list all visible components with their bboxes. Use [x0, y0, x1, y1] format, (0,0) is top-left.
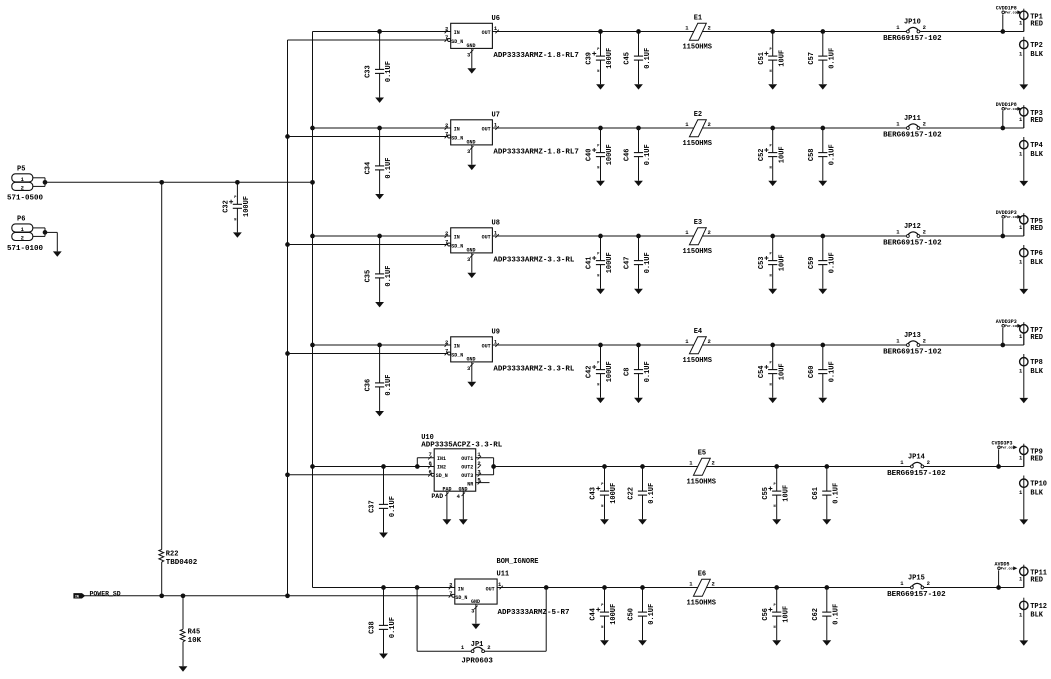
capacitor C32 — [223, 182, 252, 238]
svg-text:C46: C46 — [624, 148, 632, 161]
svg-text:JP15: JP15 — [908, 575, 925, 583]
capacitor C52 — [758, 128, 787, 186]
svg-text:OUT: OUT — [482, 344, 491, 350]
svg-text:E1: E1 — [694, 14, 702, 22]
test point TP1 (RED) — [1019, 9, 1043, 32]
jumper JP11 — [883, 115, 942, 139]
svg-text:0.1UF: 0.1UF — [828, 144, 836, 165]
capacitor C43 — [590, 467, 619, 525]
jumper JP12 — [883, 223, 942, 247]
wire POWER_SD bus (vertical) — [287, 40, 289, 596]
svg-text:0.1UF: 0.1UF — [644, 252, 652, 273]
op-amp regulator U6 ADP3333ARMZ-1.8-RL7 — [445, 15, 579, 74]
test point TP2 (BLK) — [1019, 37, 1044, 90]
power flag net AVDD3P3 — [996, 319, 1022, 345]
op-amp regulator U10 ADP3335ACPZ-3.3-RL — [421, 434, 503, 525]
svg-text:2: 2 — [708, 338, 711, 345]
svg-text:0.1UF: 0.1UF — [385, 266, 393, 287]
svg-text:571-0500: 571-0500 — [7, 195, 44, 203]
ground — [383, 652, 385, 654]
svg-text:N: N — [770, 70, 772, 74]
svg-text:BERG69157-102: BERG69157-102 — [883, 239, 942, 247]
test point TP12 (BLK) — [1019, 598, 1047, 646]
svg-text:C35: C35 — [365, 270, 373, 283]
power flag net CVDD1P8 — [996, 5, 1022, 31]
ground — [1023, 180, 1025, 182]
op-amp regulator U9 ADP3333ARMZ-3.3-RL — [445, 328, 575, 387]
junction nodes — [598, 234, 1005, 239]
ground — [1023, 639, 1025, 641]
wire JP1 bypass — [417, 588, 546, 652]
wire input to U8 — [313, 235, 451, 237]
svg-text:TP8: TP8 — [1030, 359, 1043, 367]
svg-text:N: N — [597, 275, 599, 279]
svg-text:ADP3333ARMZ-1.8-RL7: ADP3333ARMZ-1.8-RL7 — [493, 52, 579, 60]
svg-text:P6: P6 — [17, 216, 25, 224]
svg-text:E4: E4 — [694, 328, 702, 336]
jumper JP1 — [461, 641, 493, 666]
capacitor C33 — [365, 32, 394, 103]
svg-text:N: N — [597, 167, 599, 171]
svg-text:2: 2 — [923, 24, 926, 31]
svg-text:C47: C47 — [624, 256, 632, 269]
resistor R45 10K — [179, 596, 202, 672]
wire output net DVDD1P8 — [492, 117, 1023, 129]
ground — [471, 48, 473, 68]
ground — [471, 145, 473, 165]
svg-text:100UF: 100UF — [606, 144, 614, 165]
svg-text:P: P — [597, 48, 599, 52]
ground — [379, 96, 381, 98]
svg-text:0.1UF: 0.1UF — [389, 617, 397, 638]
test point TP3 (RED) — [1019, 105, 1043, 128]
svg-text:PAD: PAD — [431, 493, 443, 500]
resistor R22 TBD0402 — [159, 182, 198, 596]
jumper JP10 — [883, 19, 942, 43]
svg-text:115OHMS: 115OHMS — [686, 478, 715, 486]
svg-text:P: P — [770, 144, 772, 148]
wire shutdown SD_N to U8 — [288, 244, 448, 246]
capacitor C35 — [365, 236, 394, 307]
svg-text:ADP3333ARMZ-3.3-RL: ADP3333ARMZ-3.3-RL — [493, 256, 575, 264]
ground — [638, 180, 640, 182]
wire output net CVDD1P8 — [492, 20, 1023, 32]
svg-text:C22: C22 — [628, 487, 636, 500]
svg-text:RED: RED — [1030, 21, 1043, 29]
svg-text:100UF: 100UF — [243, 196, 251, 217]
svg-text:R45: R45 — [188, 629, 201, 637]
wire input to U11 — [313, 587, 455, 589]
svg-text:E3: E3 — [694, 219, 702, 227]
wire shutdown SD_N to U7 — [288, 136, 448, 138]
svg-text:BOM_IGNORE: BOM_IGNORE — [497, 558, 539, 566]
svg-text:10UF: 10UF — [778, 146, 786, 163]
svg-text:BLK: BLK — [1030, 51, 1043, 59]
wire shutdown SD_N to U9 — [288, 353, 448, 355]
ground — [600, 288, 602, 290]
wire input to U6 — [313, 31, 451, 33]
test point TP11 (RED) — [1019, 565, 1047, 588]
svg-text:100UF: 100UF — [606, 361, 614, 382]
svg-text:N: N — [597, 384, 599, 388]
svg-text:P: P — [774, 483, 776, 487]
svg-text:BLK: BLK — [1030, 368, 1043, 376]
svg-text:E6: E6 — [698, 570, 706, 578]
svg-text:2: 2 — [708, 121, 711, 128]
svg-text:C59: C59 — [808, 256, 816, 269]
svg-text:BLK: BLK — [1030, 151, 1043, 159]
svg-text:U7: U7 — [492, 111, 500, 119]
svg-text:IN: IN — [75, 594, 79, 598]
svg-text:C61: C61 — [812, 487, 820, 500]
svg-text:JPR0603: JPR0603 — [461, 658, 493, 666]
svg-text:DVDD3P3: DVDD3P3 — [996, 210, 1017, 216]
svg-text:0.1UF: 0.1UF — [385, 375, 393, 396]
ground — [604, 639, 606, 641]
capacitor C54 — [758, 345, 787, 403]
test point TP6 (BLK) — [1019, 245, 1044, 294]
ferrite bead E1 — [682, 14, 711, 51]
ground — [471, 362, 473, 382]
svg-text:TP4: TP4 — [1030, 142, 1043, 150]
svg-text:AVDD5: AVDD5 — [994, 561, 1009, 567]
wire output net DVDD3P3 — [492, 225, 1023, 237]
ground — [383, 531, 385, 533]
svg-text:10UF: 10UF — [782, 485, 790, 502]
svg-text:571-0100: 571-0100 — [7, 245, 44, 253]
svg-text:10UF: 10UF — [782, 606, 790, 623]
capacitor C37 — [369, 467, 398, 538]
ground — [379, 410, 381, 412]
svg-text:100UF: 100UF — [606, 252, 614, 273]
junction nodes — [602, 585, 1001, 590]
capacitor C40 — [586, 128, 615, 186]
svg-text:P: P — [770, 48, 772, 52]
capacitor C57 — [808, 32, 837, 90]
ground — [776, 518, 778, 520]
svg-text:CVDD1P8: CVDD1P8 — [996, 5, 1017, 11]
connector P6 571-0100 — [7, 216, 62, 257]
svg-text:IN: IN — [454, 127, 460, 133]
svg-text:BLK: BLK — [1030, 490, 1043, 498]
svg-text:2: 2 — [923, 229, 926, 236]
ground — [642, 639, 644, 641]
svg-text:2: 2 — [927, 459, 930, 466]
svg-text:JP12: JP12 — [904, 223, 921, 231]
svg-text:N: N — [770, 275, 772, 279]
capacitor C42 — [586, 345, 615, 403]
svg-text:C33: C33 — [365, 65, 373, 78]
svg-text:E5: E5 — [698, 449, 706, 457]
svg-text:ADP3333ARMZ-5-R7: ADP3333ARMZ-5-R7 — [498, 609, 570, 617]
svg-text:P: P — [597, 361, 599, 365]
svg-text:C60: C60 — [808, 365, 816, 378]
power flag net DVDD1P8 — [996, 102, 1022, 128]
svg-text:RED: RED — [1030, 577, 1043, 585]
test point TP8 (BLK) — [1019, 354, 1044, 403]
power flag net AVDD5 — [994, 561, 1017, 587]
wire shutdown SD_N to U10 — [288, 474, 432, 476]
svg-text:JP13: JP13 — [904, 332, 921, 340]
capacitor C36 — [365, 345, 394, 416]
ground — [604, 518, 606, 520]
svg-text:P: P — [770, 361, 772, 365]
svg-text:100UF: 100UF — [610, 604, 618, 625]
capacitor C34 — [365, 128, 394, 199]
svg-text:C57: C57 — [808, 52, 816, 65]
wire output net AVDD3P3 — [492, 334, 1023, 346]
capacitor C47 — [624, 236, 653, 294]
svg-text:N: N — [597, 70, 599, 74]
svg-text:0.1UF: 0.1UF — [648, 483, 656, 504]
ground — [822, 288, 824, 290]
ground — [56, 250, 58, 252]
svg-text:115OHMS: 115OHMS — [682, 357, 711, 365]
node input cap junction — [377, 343, 382, 348]
capacitor C46 — [624, 128, 653, 186]
svg-text:TBD0402: TBD0402 — [166, 559, 198, 567]
svg-text:C45: C45 — [624, 52, 632, 65]
op-amp regulator U8 ADP3333ARMZ-3.3-RL — [445, 219, 575, 278]
svg-text:2: 2 — [712, 581, 715, 588]
svg-text:E2: E2 — [694, 111, 702, 119]
ground — [1023, 518, 1025, 520]
power flag net DVDD3P3 — [996, 210, 1022, 236]
svg-text:C38: C38 — [369, 621, 377, 634]
svg-text:IN: IN — [454, 30, 460, 36]
ground — [826, 639, 828, 641]
svg-text:2: 2 — [487, 644, 490, 651]
svg-text:GND: GND — [466, 139, 475, 145]
svg-text:0.1UF: 0.1UF — [385, 61, 393, 82]
capacitor C51 — [758, 32, 787, 90]
ground — [772, 180, 774, 182]
capacitor C38 — [369, 588, 398, 659]
svg-text:TP10: TP10 — [1030, 481, 1047, 489]
svg-text:N: N — [770, 384, 772, 388]
ground — [600, 180, 602, 182]
svg-text:RED: RED — [1030, 225, 1043, 233]
svg-text:10UF: 10UF — [778, 254, 786, 271]
svg-text:JP14: JP14 — [908, 454, 925, 462]
svg-text:GND: GND — [466, 356, 475, 362]
capacitor C8 — [624, 345, 653, 403]
svg-text:P: P — [234, 196, 236, 200]
svg-text:C58: C58 — [808, 148, 816, 161]
capacitor C59 — [808, 236, 837, 294]
ground — [600, 397, 602, 399]
capacitor C39 — [586, 32, 615, 90]
wire OUT1/OUT2/OUT3 tie — [476, 457, 494, 459]
ferrite bead E2 — [682, 111, 711, 148]
capacitor C41 — [586, 236, 615, 294]
svg-text:0.1UF: 0.1UF — [648, 604, 656, 625]
svg-text:OUT: OUT — [482, 30, 491, 36]
jumper JP14 — [887, 454, 946, 478]
svg-text:P: P — [601, 604, 603, 608]
ground — [772, 397, 774, 399]
ground — [638, 397, 640, 399]
svg-text:IN2: IN2 — [437, 465, 446, 471]
svg-text:BLK: BLK — [1030, 259, 1043, 267]
svg-text:SD_N: SD_N — [451, 39, 463, 45]
svg-text:0.1UF: 0.1UF — [828, 252, 836, 273]
svg-text:2: 2 — [927, 580, 930, 587]
svg-text:10UF: 10UF — [778, 50, 786, 67]
ground — [471, 253, 473, 273]
svg-text:2: 2 — [708, 25, 711, 32]
svg-text:P: P — [597, 252, 599, 256]
wire output net CVDD3P3 — [494, 455, 1024, 467]
svg-text:TP6: TP6 — [1030, 250, 1043, 258]
svg-text:DVDD1P8: DVDD1P8 — [996, 102, 1017, 108]
ground — [379, 301, 381, 303]
ground GND pin — [462, 491, 464, 519]
svg-text:100UF: 100UF — [606, 48, 614, 69]
ground — [638, 83, 640, 85]
wire shutdown SD_N to U6 — [288, 39, 448, 41]
ground — [1023, 397, 1025, 399]
svg-text:POWER_SD: POWER_SD — [90, 590, 121, 597]
capacitor C58 — [808, 128, 837, 186]
wire input to U9 — [313, 344, 451, 346]
ferrite bead E5 — [686, 449, 715, 486]
svg-text:115OHMS: 115OHMS — [682, 140, 711, 148]
node input cap junction — [377, 234, 382, 239]
svg-text:BERG69157-102: BERG69157-102 — [883, 131, 942, 139]
svg-text:JP10: JP10 — [904, 19, 921, 27]
svg-text:SD_N: SD_N — [436, 473, 448, 479]
svg-text:RED: RED — [1030, 456, 1043, 464]
node input cap junction — [377, 126, 382, 131]
wire input to U10 — [313, 458, 435, 467]
capacitor C45 — [624, 32, 653, 90]
ground — [772, 83, 774, 85]
svg-text:BERG69157-102: BERG69157-102 — [887, 591, 946, 599]
svg-text:TP2: TP2 — [1030, 42, 1043, 50]
ferrite bead E3 — [682, 219, 711, 256]
svg-text:0.1UF: 0.1UF — [832, 604, 840, 625]
svg-text:0.1UF: 0.1UF — [385, 158, 393, 179]
svg-text:IN: IN — [458, 586, 464, 592]
svg-text:P: P — [597, 144, 599, 148]
port POWER_SD — [74, 590, 121, 598]
ground — [182, 665, 184, 667]
ground — [236, 231, 238, 233]
svg-text:IN1: IN1 — [437, 456, 446, 462]
svg-text:RED: RED — [1030, 117, 1043, 125]
svg-text:U8: U8 — [492, 219, 500, 227]
svg-text:C50: C50 — [628, 608, 636, 621]
svg-text:N: N — [774, 626, 776, 630]
capacitor C60 — [808, 345, 837, 403]
svg-text:AVDD3P3: AVDD3P3 — [996, 319, 1017, 325]
junction nodes — [598, 126, 1005, 131]
svg-text:115OHMS: 115OHMS — [682, 43, 711, 51]
svg-text:OUT3: OUT3 — [461, 473, 473, 479]
node junctions left — [43, 180, 315, 598]
junction nodes — [598, 343, 1005, 348]
junction nodes — [602, 464, 1001, 469]
svg-text:115OHMS: 115OHMS — [682, 248, 711, 256]
svg-text:ADP3335ACPZ-3.3-RL: ADP3335ACPZ-3.3-RL — [421, 442, 503, 450]
node junctions row 6 — [381, 585, 548, 590]
connector P5 571-0500 — [7, 166, 45, 203]
svg-text:N: N — [770, 167, 772, 171]
svg-text:CVDD3P3: CVDD3P3 — [991, 440, 1012, 446]
svg-text:U6: U6 — [492, 15, 500, 23]
svg-text:N: N — [774, 505, 776, 509]
svg-text:C36: C36 — [365, 379, 373, 392]
pin 5 NR stub wire — [476, 482, 490, 484]
node input cap junction — [377, 29, 382, 34]
svg-text:TP12: TP12 — [1030, 603, 1047, 611]
ground — [1023, 288, 1025, 290]
svg-text:JP1: JP1 — [471, 641, 484, 649]
svg-text:0.1UF: 0.1UF — [389, 496, 397, 517]
wire POWER_SD horizontal — [85, 595, 452, 597]
svg-text:GND: GND — [466, 43, 475, 49]
wire P6 to ground — [45, 231, 57, 233]
test point TP9 (RED) — [1019, 444, 1043, 467]
svg-text:0.1UF: 0.1UF — [644, 361, 652, 382]
ground — [822, 397, 824, 399]
svg-text:SD_N: SD_N — [451, 135, 463, 141]
ground — [822, 180, 824, 182]
svg-text:IN: IN — [454, 344, 460, 350]
test point TP5 (RED) — [1019, 213, 1043, 236]
jumper JP15 — [887, 575, 946, 599]
capacitor C50 — [628, 588, 657, 646]
ground — [776, 639, 778, 641]
svg-text:U10: U10 — [421, 434, 434, 442]
svg-text:2: 2 — [923, 121, 926, 128]
test point TP10 (BLK) — [1019, 476, 1047, 525]
svg-text:SD_N: SD_N — [451, 243, 463, 249]
svg-text:OUT: OUT — [486, 586, 495, 592]
svg-text:0.1UF: 0.1UF — [828, 48, 836, 69]
op-amp regulator U7 ADP3333ARMZ-1.8-RL7 — [445, 111, 579, 170]
capacitor C55 — [762, 467, 791, 525]
svg-text:P5: P5 — [17, 166, 25, 174]
capacitor C61 — [812, 467, 841, 525]
svg-text:2: 2 — [923, 338, 926, 345]
capacitor C53 — [758, 236, 787, 294]
svg-text:R22: R22 — [166, 551, 179, 559]
svg-text:OUT1: OUT1 — [461, 456, 473, 462]
wire input to U7 — [313, 127, 451, 129]
svg-text:N: N — [601, 626, 603, 630]
capacitor C56 — [762, 588, 791, 646]
svg-text:U9: U9 — [492, 328, 500, 336]
svg-text:2: 2 — [21, 235, 24, 242]
svg-text:N: N — [601, 505, 603, 509]
svg-text:100UF: 100UF — [610, 483, 618, 504]
ferrite bead E4 — [682, 328, 711, 365]
svg-text:2: 2 — [708, 229, 711, 236]
ground — [475, 604, 477, 624]
svg-text:0.1UF: 0.1UF — [832, 483, 840, 504]
ground — [822, 83, 824, 85]
svg-text:115OHMS: 115OHMS — [686, 599, 715, 607]
ground PAD pin — [446, 491, 448, 519]
ground — [772, 288, 774, 290]
svg-text:NR: NR — [467, 481, 473, 487]
svg-text:0.1UF: 0.1UF — [644, 48, 652, 69]
svg-text:U11: U11 — [497, 570, 510, 578]
svg-text:N: N — [234, 218, 236, 222]
svg-text:JP11: JP11 — [904, 115, 921, 123]
